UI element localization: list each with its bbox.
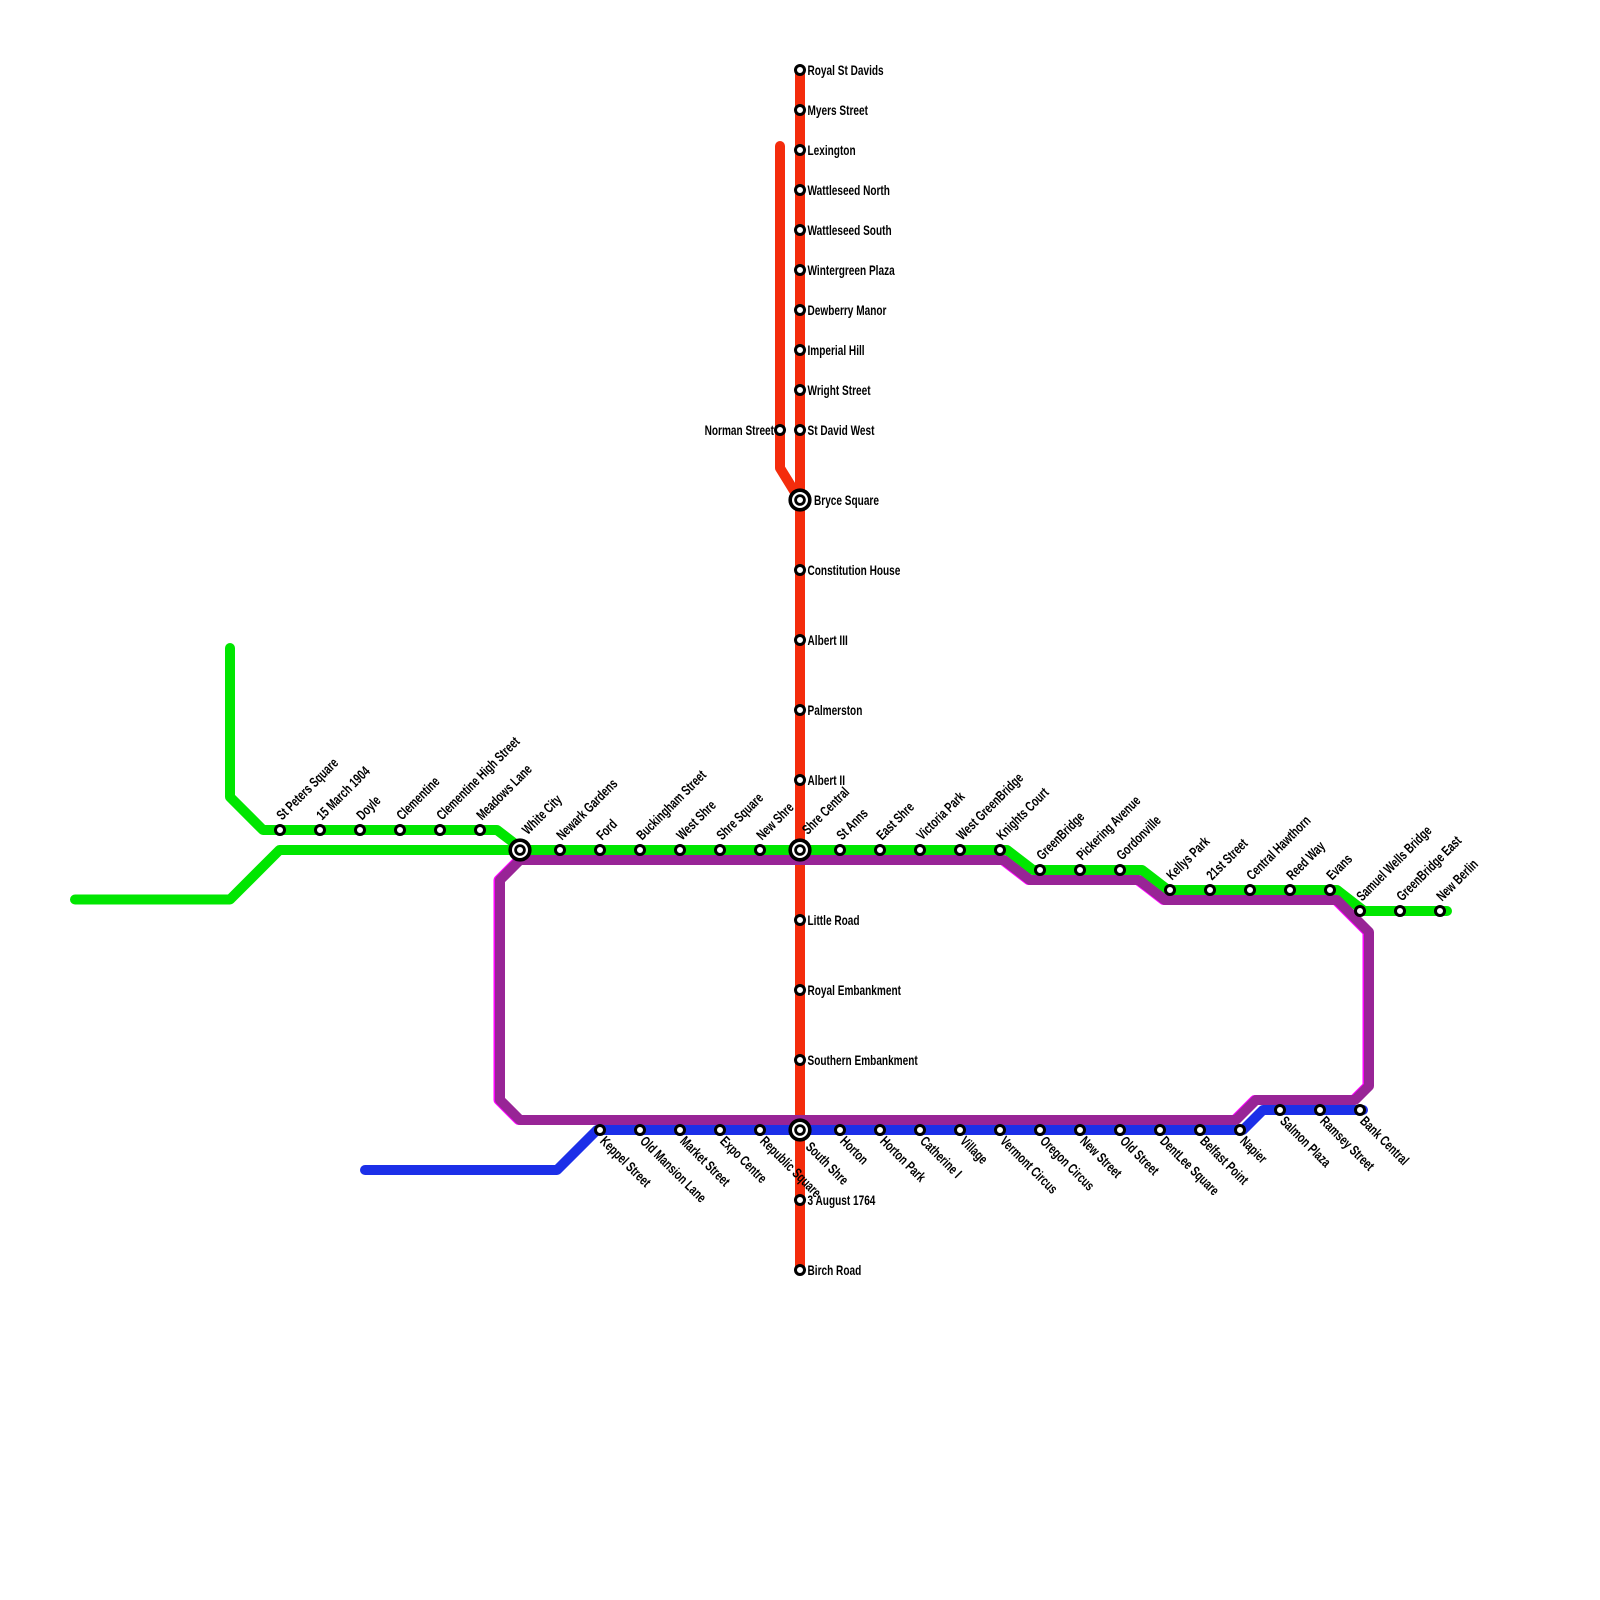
station Oregon Circus <box>1036 1126 1098 1195</box>
station Newark Gardens <box>553 776 621 855</box>
station Meadows Lane <box>473 761 535 834</box>
svg-text:Imperial Hill: Imperial Hill <box>808 342 865 358</box>
station 21st Street <box>1203 835 1251 894</box>
station Expo Centre <box>716 1126 771 1187</box>
svg-text:Dewberry Manor: Dewberry Manor <box>808 302 887 318</box>
svg-text:Birch Road: Birch Road <box>808 1262 862 1278</box>
station Dewberry Manor <box>796 302 887 318</box>
station GreenBridge <box>1033 809 1088 875</box>
station Old Street <box>1116 1126 1163 1179</box>
station Central Hawthorn <box>1243 813 1314 895</box>
station Albert II <box>796 772 845 788</box>
station Royal St Davids <box>796 62 884 78</box>
station Constitution House <box>796 562 901 578</box>
station 15 March 1904 <box>313 763 373 834</box>
station Ford <box>593 816 620 854</box>
station Napier <box>1236 1126 1271 1167</box>
svg-text:Albert III: Albert III <box>808 632 848 648</box>
magenta inner loop line <box>499 860 1368 1120</box>
station St David West <box>796 422 875 438</box>
station Gordonville <box>1113 812 1164 874</box>
station Wintergreen Plaza <box>796 262 895 278</box>
station St Anns <box>833 805 871 854</box>
station Reed Way <box>1283 838 1328 895</box>
station Kellys Park <box>1163 833 1213 894</box>
svg-text:Royal Embankment: Royal Embankment <box>808 982 901 998</box>
station Ramsey Street <box>1316 1106 1378 1174</box>
station Wright Street <box>796 382 871 398</box>
station Lexington <box>796 142 856 158</box>
svg-text:Wattleseed North: Wattleseed North <box>808 182 890 198</box>
station Clementine <box>393 773 443 834</box>
station DentLee Square <box>1156 1126 1223 1199</box>
station Village <box>956 1126 992 1168</box>
station Knights Court <box>993 784 1052 854</box>
station Imperial Hill <box>796 342 865 358</box>
svg-text:Wright Street: Wright Street <box>808 382 871 398</box>
station Vermont Circus <box>996 1126 1061 1198</box>
red line Norman Street branch <box>780 146 796 494</box>
station Old Mansion Lane <box>636 1126 710 1206</box>
green line main route <box>75 850 1447 911</box>
station Royal Embankment <box>796 982 901 998</box>
svg-text:Palmerston: Palmerston <box>808 702 863 718</box>
station Clementine High Street <box>433 734 523 835</box>
station Doyle <box>353 792 384 834</box>
station Norman Street <box>705 422 785 438</box>
blue line <box>365 1110 1363 1170</box>
svg-text:Southern Embankment: Southern Embankment <box>808 1052 918 1068</box>
station Myers Street <box>796 102 868 118</box>
svg-text:Lexington: Lexington <box>808 142 856 158</box>
station Belfast Point <box>1196 1126 1252 1188</box>
station Republic Square <box>756 1126 825 1201</box>
station West Shre <box>673 797 719 854</box>
station Victoria Park <box>913 788 968 854</box>
svg-text:Myers Street: Myers Street <box>808 102 868 118</box>
station White City <box>510 791 565 859</box>
station Keppel Street <box>596 1126 655 1191</box>
station New Shre <box>753 799 797 854</box>
station Bank Central <box>1356 1106 1413 1169</box>
green line north-west branch <box>230 648 523 850</box>
station Wattleseed South <box>796 222 892 238</box>
station New Street <box>1076 1126 1126 1182</box>
station St Peters Square <box>273 755 341 835</box>
station GreenBridge East <box>1393 833 1465 916</box>
svg-text:St David West: St David West <box>808 422 875 438</box>
station Little Road <box>796 912 860 928</box>
station Samuel Wells Bridge <box>1353 822 1435 915</box>
svg-text:Constitution House: Constitution House <box>808 562 901 578</box>
station Evans <box>1323 851 1355 895</box>
station New Berlin <box>1433 856 1481 915</box>
svg-text:Wattleseed South: Wattleseed South <box>808 222 892 238</box>
svg-text:Little Road: Little Road <box>808 912 860 928</box>
station Buckingham Street <box>633 767 709 855</box>
station Albert III <box>796 632 848 648</box>
station West GreenBridge <box>953 770 1026 855</box>
station Horton <box>836 1126 872 1168</box>
station Bryce Square <box>790 490 879 510</box>
svg-text:Norman Street: Norman Street <box>705 422 774 438</box>
station Salmon Plaza <box>1276 1106 1335 1171</box>
station 3 August 1764 <box>796 1192 876 1208</box>
station Pickering Avenue <box>1073 793 1144 875</box>
station Horton Park <box>876 1126 930 1186</box>
station South Shre <box>790 1120 852 1188</box>
station Southern Embankment <box>796 1052 918 1068</box>
station Wattleseed North <box>796 182 890 198</box>
svg-text:Bryce Square: Bryce Square <box>814 492 879 508</box>
station Market Street <box>676 1126 734 1190</box>
station Shre Square <box>713 790 766 855</box>
red line main trunk <box>795 70 805 1270</box>
station East Shre <box>873 799 917 855</box>
station Catherine I <box>916 1126 966 1182</box>
svg-text:Royal St Davids: Royal St Davids <box>808 62 884 78</box>
purple loop line <box>500 860 1369 1120</box>
svg-text:Wintergreen Plaza: Wintergreen Plaza <box>808 262 895 278</box>
station Birch Road <box>796 1262 862 1278</box>
station Palmerston <box>796 702 863 718</box>
station Shre Central <box>790 784 852 860</box>
